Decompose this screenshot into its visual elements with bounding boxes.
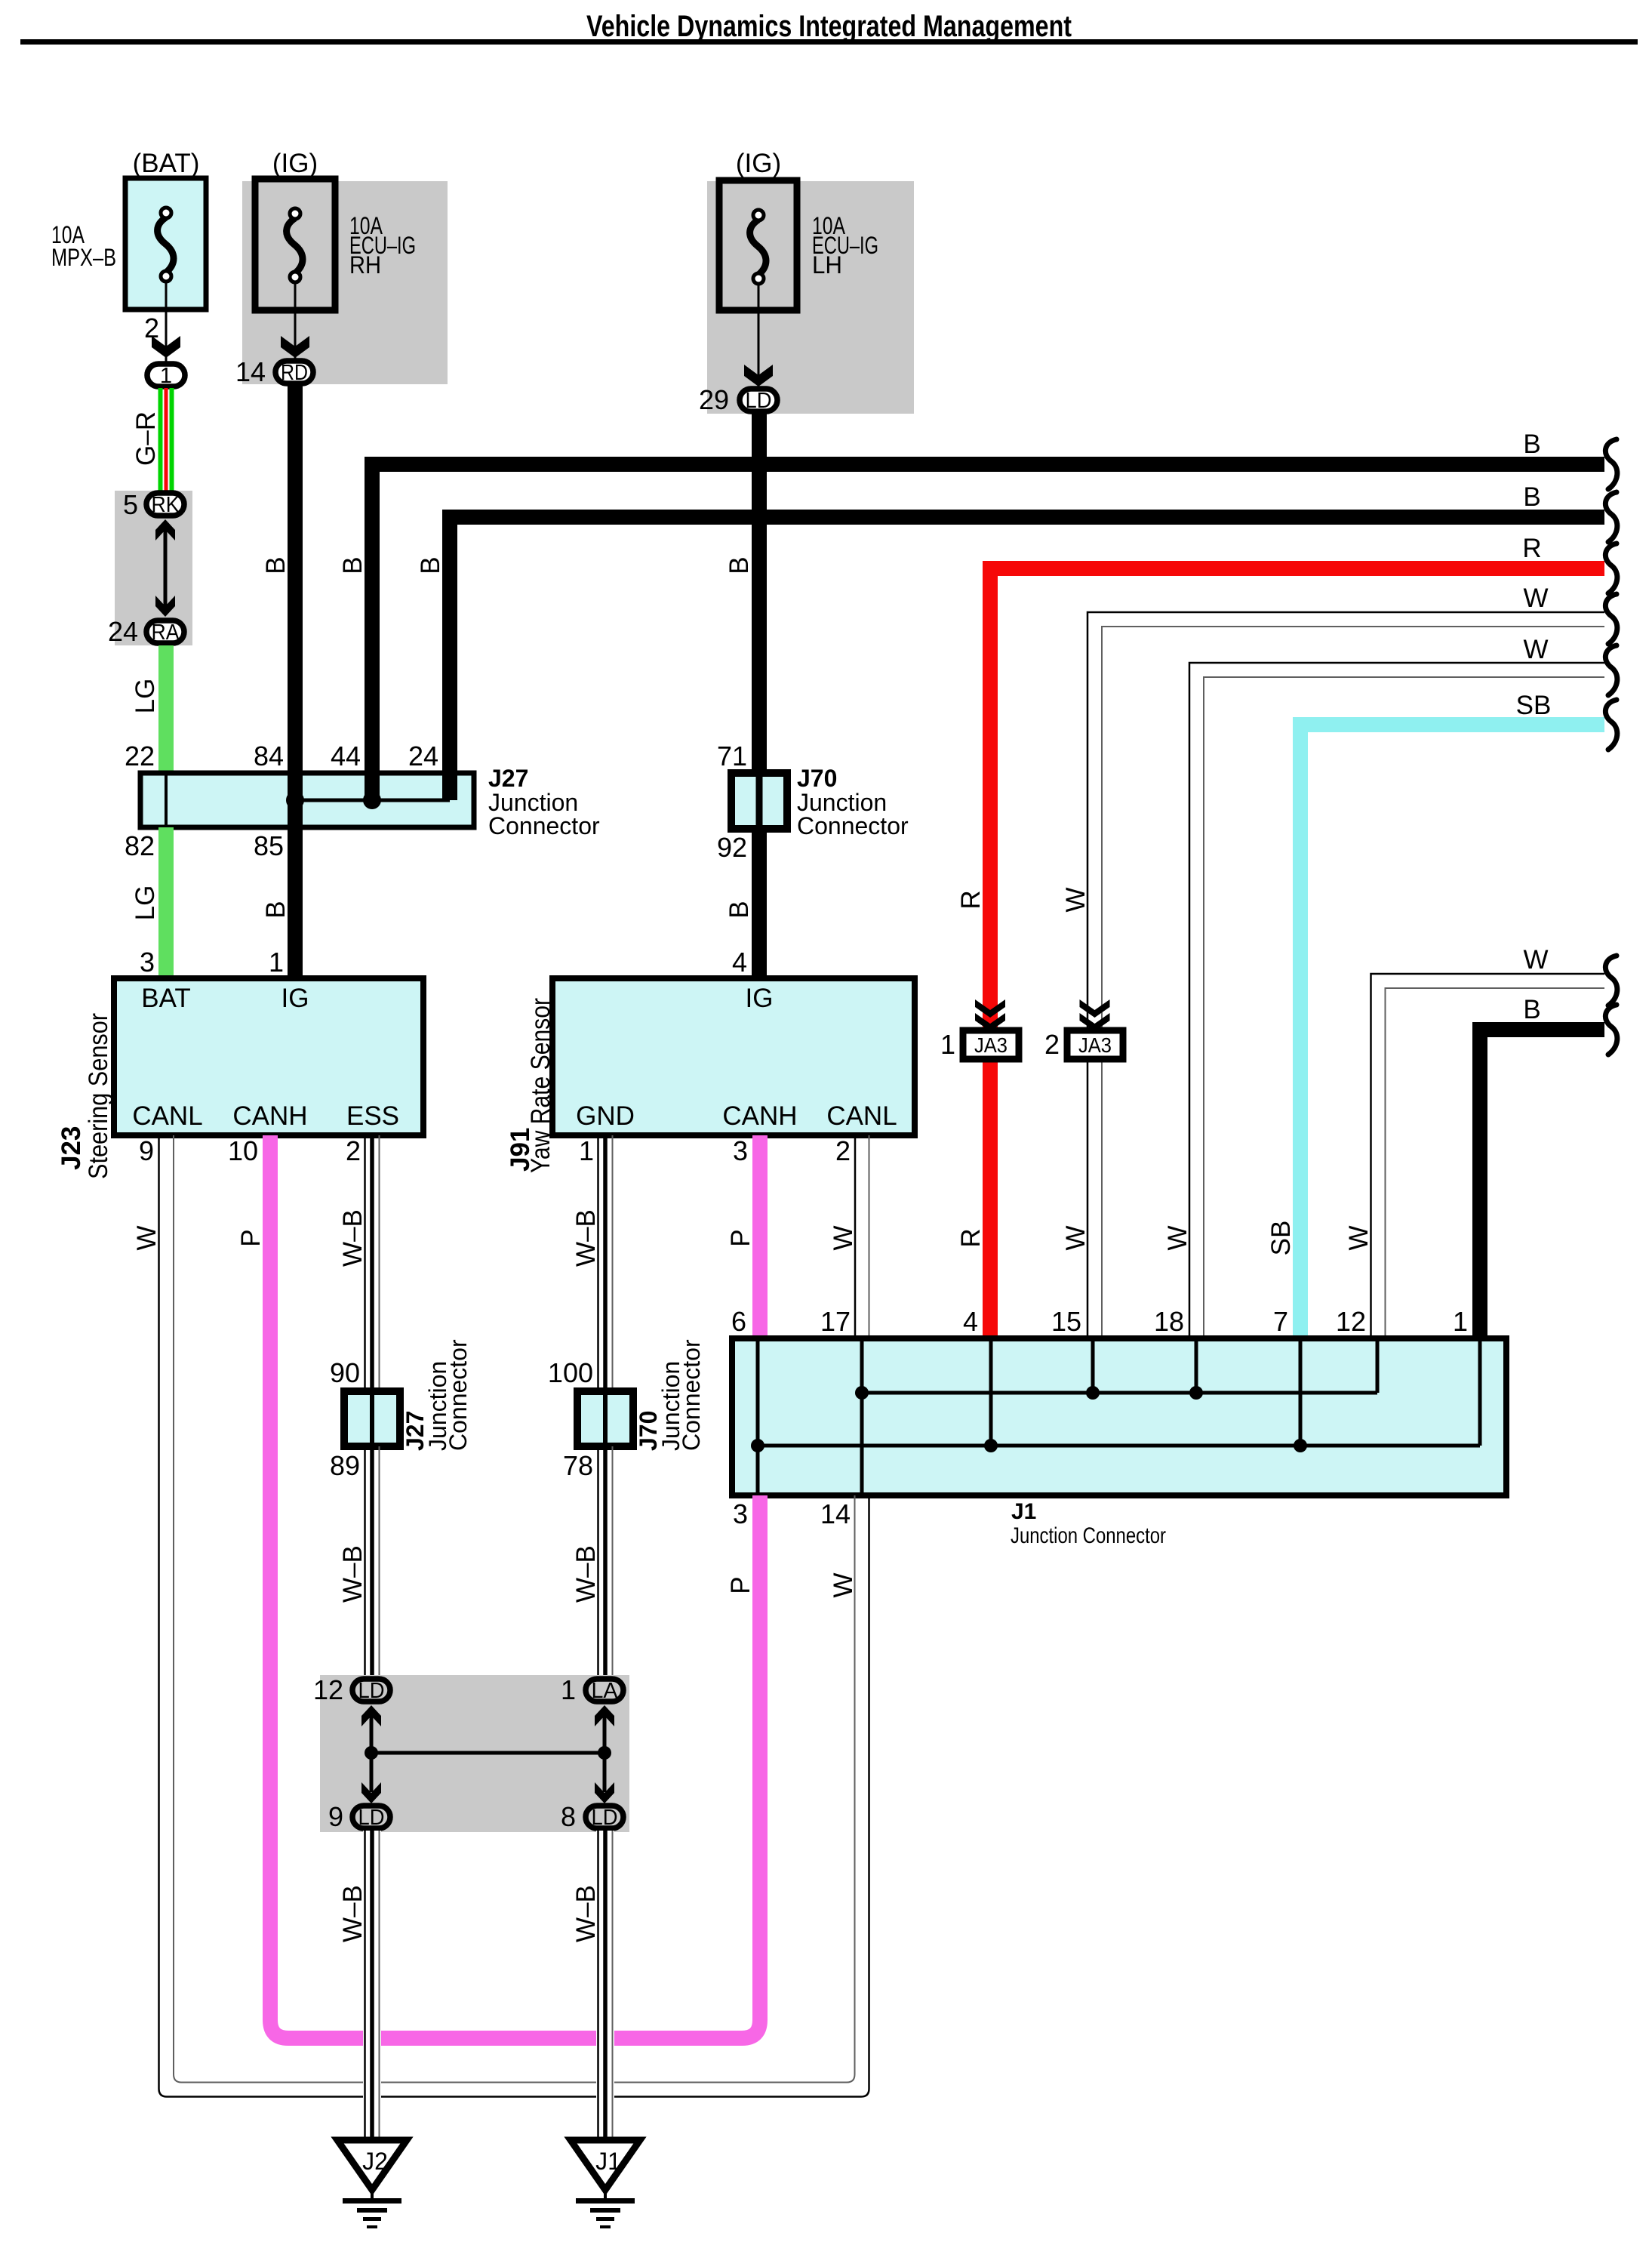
svg-text:R: R	[1522, 534, 1541, 563]
fuse MPX-B body	[125, 178, 206, 310]
connector JA3 pin 2 body	[1067, 1030, 1123, 1059]
svg-text:J70: J70	[797, 765, 837, 792]
svg-text:W–B: W–B	[571, 1885, 601, 1942]
connector mating link RK-RA	[164, 528, 168, 608]
svg-text:LG: LG	[131, 885, 160, 921]
svg-text:CANL: CANL	[826, 1101, 897, 1131]
svg-text:89: 89	[330, 1450, 360, 1481]
svg-text:Vehicle Dynamics Integrated Ma: Vehicle Dynamics Integrated Management	[586, 10, 1072, 43]
svg-text:J1: J1	[1011, 1499, 1036, 1524]
svg-text:W: W	[1163, 1225, 1192, 1250]
svg-text:9: 9	[328, 1801, 343, 1832]
wire B from terminal LD pin 29 down to J70 pin 71	[752, 412, 767, 775]
svg-text:LD: LD	[746, 389, 772, 413]
svg-text:R: R	[956, 1228, 986, 1247]
mating arrow up at LD 12	[361, 1705, 381, 1726]
svg-text:4: 4	[732, 947, 747, 978]
svg-text:Connector: Connector	[488, 812, 600, 839]
svg-text:LH: LH	[812, 251, 842, 279]
J1 internal wire pin 7	[1299, 1338, 1303, 1446]
svg-text:2: 2	[346, 1135, 361, 1166]
arrow into connector 1	[152, 336, 180, 358]
fuse ECU-IG LH element	[750, 220, 766, 275]
svg-text:1: 1	[561, 1674, 576, 1705]
svg-text:2: 2	[1044, 1029, 1060, 1060]
svg-text:RK: RK	[152, 493, 180, 517]
svg-text:W: W	[1061, 887, 1091, 912]
svg-text:JA3: JA3	[974, 1033, 1008, 1057]
svg-text:BAT: BAT	[141, 984, 190, 1013]
wire P loop from steering sensor CANH to J1 pin 3	[270, 1135, 760, 2038]
J27 lower internal divider	[370, 1391, 374, 1446]
fuse MPX-B element	[158, 217, 174, 273]
svg-text:RD: RD	[281, 361, 308, 385]
svg-text:RA: RA	[152, 621, 180, 645]
svg-text:W: W	[1523, 584, 1548, 613]
svg-text:ESS: ESS	[346, 1101, 399, 1131]
svg-text:22: 22	[125, 741, 155, 771]
svg-text:R: R	[956, 890, 986, 909]
svg-text:B: B	[724, 556, 754, 574]
junction connector J70 (lower) body	[577, 1391, 633, 1446]
svg-text:Connector: Connector	[678, 1339, 705, 1451]
wire B riser from J27 pin 44 up to bus B1	[372, 464, 1604, 775]
wire B from J70 pin 92 to yaw rate sensor IG	[752, 829, 767, 980]
wire LG from J27 pin 82 to steering sensor BAT	[158, 827, 174, 980]
svg-text:2: 2	[835, 1135, 851, 1166]
svg-text:W: W	[132, 1225, 162, 1250]
mating arrow down at LD 8	[595, 1782, 614, 1803]
wire P from yaw rate sensor CANH to J1 pin 6	[752, 1135, 768, 1340]
wire B from terminal RD pin 14 down to J27 pin 84	[288, 385, 303, 775]
svg-text:8: 8	[561, 1801, 576, 1832]
J1 internal upper bus	[862, 1391, 1377, 1395]
svg-text:10: 10	[228, 1135, 258, 1166]
svg-text:B: B	[724, 901, 754, 918]
svg-text:1: 1	[160, 364, 172, 388]
svg-text:B: B	[1523, 482, 1540, 512]
connector mating arrow down at RA	[155, 596, 175, 617]
svg-text:84: 84	[254, 741, 284, 771]
svg-text:CANH: CANH	[722, 1101, 797, 1131]
wire W-B from terminal LD 8 to ground J1	[596, 1831, 614, 2142]
continuation brace R	[1605, 544, 1617, 593]
svg-text:17: 17	[820, 1306, 851, 1337]
wire W-B from J27 pin 89 to terminal LD 12	[365, 1446, 380, 1677]
svg-text:82: 82	[125, 830, 155, 861]
svg-text:78: 78	[563, 1450, 593, 1481]
svg-text:W: W	[1523, 635, 1548, 664]
svg-text:IG: IG	[746, 984, 774, 1013]
svg-text:B: B	[416, 556, 445, 574]
svg-text:1: 1	[579, 1135, 594, 1166]
svg-text:J1: J1	[595, 2148, 621, 2175]
svg-text:1: 1	[269, 947, 284, 978]
J27 internal wire pin 44	[365, 773, 380, 800]
svg-text:B: B	[1523, 430, 1540, 459]
svg-text:LG: LG	[131, 679, 160, 714]
continuation brace W	[1605, 594, 1617, 644]
junction dot pin 6	[751, 1439, 764, 1452]
terminal oval RA	[146, 621, 184, 643]
svg-text:9: 9	[139, 1135, 154, 1166]
svg-text:RH: RH	[349, 251, 381, 279]
svg-text:B: B	[1523, 995, 1540, 1024]
wire SB from bus to J1 pin 7	[1300, 725, 1604, 1340]
svg-text:(IG): (IG)	[736, 149, 781, 178]
junction dot left	[365, 1746, 378, 1760]
wire fuse RH to terminal 14 RD	[294, 283, 297, 359]
svg-text:14: 14	[235, 356, 266, 387]
terminal oval LD	[740, 389, 777, 411]
connector oval 1	[147, 364, 185, 386]
svg-text:100: 100	[548, 1357, 593, 1388]
svg-text:Yaw Rate Sensor: Yaw Rate Sensor	[526, 998, 555, 1173]
svg-text:IG: IG	[281, 984, 309, 1013]
svg-text:P: P	[726, 1576, 755, 1594]
junction dot at pin 84	[286, 791, 304, 809]
J1 internal lower bus	[758, 1444, 1480, 1448]
continuation brace B	[1605, 492, 1617, 542]
svg-text:LA: LA	[592, 1679, 619, 1703]
shield box for connectors LD/LA	[320, 1675, 629, 1832]
svg-text:SB: SB	[1516, 691, 1552, 720]
J1 internal wire pin 12	[1376, 1338, 1380, 1393]
svg-text:B: B	[261, 901, 291, 918]
continuation brace B	[1605, 1005, 1617, 1055]
J70 lower internal divider	[603, 1391, 608, 1446]
ground J1	[571, 2140, 640, 2228]
wire W (double line) from bus to JA3 pin 2 and J1 pin 15	[1087, 612, 1604, 1340]
wire W loop (double line) from steering sensor CANL to J1 pin 14	[159, 1135, 869, 2097]
wire W-B from yaw rate sensor GND to J70 pin 100	[598, 1135, 613, 1393]
J1 internal wire pin 6-3	[756, 1338, 760, 1495]
wire W (double line) from bus to J1 pin 18	[1189, 663, 1604, 1340]
terminal oval LD 9	[352, 1806, 390, 1828]
svg-text:W: W	[829, 1572, 858, 1597]
svg-text:12: 12	[313, 1674, 343, 1705]
svg-text:14: 14	[820, 1498, 851, 1529]
svg-text:CANH: CANH	[232, 1101, 307, 1131]
junction dot pin 17	[855, 1386, 869, 1400]
arrow into terminal RD	[281, 336, 309, 358]
svg-text:3: 3	[733, 1498, 748, 1529]
svg-text:W: W	[1523, 945, 1548, 975]
internal bus between connectors	[371, 1751, 605, 1755]
svg-text:85: 85	[254, 830, 284, 861]
svg-text:J2: J2	[362, 2148, 388, 2175]
J1 internal wire pin 18	[1195, 1338, 1198, 1393]
svg-text:W: W	[1061, 1225, 1091, 1250]
fuse ECU-IG RH element	[287, 218, 303, 273]
wire W (double line) from bus to J1 pin 12	[1371, 974, 1605, 1340]
junction connector J1 body	[732, 1338, 1506, 1495]
svg-text:B: B	[261, 556, 291, 574]
connector JA3 pin 2 chevrons	[1080, 999, 1110, 1018]
continuation brace B	[1605, 439, 1617, 489]
mating arrow up at LA 1	[595, 1705, 614, 1726]
wire W-B from J70 pin 78 to terminal LA 1	[598, 1446, 613, 1677]
wire B from bus to J1 pin 1	[1480, 1030, 1604, 1340]
svg-text:MPX–B: MPX–B	[51, 244, 116, 271]
svg-text:5: 5	[123, 489, 138, 520]
svg-text:P: P	[236, 1229, 266, 1246]
svg-text:SB: SB	[1266, 1221, 1296, 1256]
svg-text:J23: J23	[57, 1126, 86, 1170]
svg-text:44: 44	[331, 741, 361, 771]
wire LG from RA to J27 pin 22	[158, 645, 174, 775]
svg-text:J27: J27	[488, 765, 528, 792]
connector mating arrow up at RK	[155, 519, 175, 540]
svg-text:1: 1	[1453, 1306, 1468, 1337]
steering sensor J23 body	[114, 978, 423, 1135]
wire fuse LH to terminal 29 LD	[758, 285, 760, 386]
svg-text:(BAT): (BAT)	[133, 149, 200, 178]
svg-text:W–B: W–B	[338, 1545, 368, 1603]
svg-text:W–B: W–B	[571, 1209, 601, 1267]
J1 internal wire pin 1	[1478, 1338, 1482, 1446]
svg-text:90: 90	[330, 1357, 360, 1388]
junction dot right	[598, 1746, 611, 1760]
wire fuse MPX-B pin 2 to connector 1	[165, 282, 168, 362]
wire B from J27 pin 85 to steering sensor IG	[288, 827, 303, 980]
continuation brace W	[1605, 956, 1617, 1006]
connector JA3 pin 1 chevrons	[975, 999, 1005, 1018]
connector JA3 pin 1 body	[963, 1030, 1019, 1059]
svg-text:(IG): (IG)	[272, 149, 318, 178]
svg-text:Junction Connector: Junction Connector	[1011, 1523, 1166, 1548]
title rule	[20, 39, 1638, 45]
shield box for connectors RK/RA	[115, 491, 192, 645]
junction dot pin 4	[984, 1439, 998, 1452]
svg-text:4: 4	[963, 1306, 978, 1337]
J1 internal wire pin 15	[1091, 1338, 1095, 1393]
svg-text:1: 1	[940, 1029, 955, 1060]
svg-text:LD: LD	[358, 1679, 385, 1703]
svg-text:LD: LD	[592, 1806, 618, 1830]
svg-text:29: 29	[699, 384, 729, 415]
terminal oval LD 12	[352, 1679, 390, 1702]
svg-text:24: 24	[408, 741, 438, 771]
J27 internal wire pin 24	[442, 773, 457, 800]
fuse ECU-IG LH body	[719, 180, 797, 310]
svg-text:Connector: Connector	[797, 812, 909, 839]
svg-text:7: 7	[1273, 1306, 1288, 1337]
svg-text:G–R: G–R	[131, 411, 161, 466]
svg-text:15: 15	[1051, 1306, 1081, 1337]
wire G-R from connector 1 to RK (green-red-green stripes)	[158, 388, 163, 492]
J1 internal wire pin 4	[989, 1338, 993, 1446]
fuse ECU-IG RH body	[255, 179, 335, 310]
svg-text:24: 24	[108, 616, 138, 647]
wire W-B from steering sensor ESS to J27 pin 90	[365, 1135, 380, 1393]
terminal oval LD 8	[586, 1806, 623, 1828]
svg-text:P: P	[726, 1229, 755, 1246]
svg-text:3: 3	[733, 1135, 748, 1166]
junction connector J27 (lower) body	[344, 1391, 400, 1446]
svg-text:18: 18	[1154, 1306, 1184, 1337]
wire R from bus to JA3 pin 1 and J1 pin 4	[990, 568, 1604, 1340]
ground J2	[337, 2140, 407, 2228]
svg-text:W–B: W–B	[338, 1885, 368, 1942]
svg-text:W–B: W–B	[338, 1209, 368, 1267]
svg-text:3: 3	[140, 947, 155, 978]
mating arrow down at LD 9	[361, 1782, 381, 1803]
wire W-B from terminal LD 9 to ground J2	[363, 1831, 381, 2142]
J1 internal wire pin 17-14	[860, 1338, 864, 1495]
svg-text:12: 12	[1336, 1306, 1366, 1337]
terminal oval RK	[146, 493, 184, 516]
svg-text:LD: LD	[358, 1806, 385, 1830]
internal link LD12 to LD9	[370, 1716, 374, 1792]
junction connector J27 body	[140, 773, 474, 827]
junction dot at pin 44	[363, 791, 381, 809]
svg-text:71: 71	[717, 741, 747, 771]
svg-text:B: B	[338, 556, 368, 574]
shield box for fuse ECU-IG LH	[707, 181, 914, 414]
svg-text:W: W	[829, 1225, 858, 1250]
svg-text:Connector: Connector	[445, 1339, 472, 1451]
svg-text:CANL: CANL	[132, 1101, 202, 1131]
svg-text:W–B: W–B	[571, 1545, 601, 1603]
internal link LA1 to LD8	[603, 1716, 607, 1792]
svg-text:W: W	[1344, 1225, 1374, 1250]
junction dot pin 7	[1294, 1439, 1307, 1452]
svg-text:92: 92	[717, 832, 747, 863]
junction connector J70 body	[731, 773, 787, 829]
continuation brace W	[1605, 645, 1617, 695]
wire W (double line) from yaw rate sensor CANL to J1 pin 17	[854, 1135, 857, 1340]
J70 internal divider	[756, 773, 763, 829]
continuation brace SB	[1605, 700, 1617, 750]
svg-text:GND: GND	[576, 1101, 635, 1131]
shield box for fuse ECU-IG RH	[242, 181, 448, 384]
arrow into terminal LD	[744, 365, 773, 386]
J27 internal bus pin 84-44-24	[295, 799, 450, 802]
terminal oval RD	[275, 361, 313, 383]
svg-text:JA3: JA3	[1078, 1033, 1112, 1057]
svg-text:2: 2	[144, 313, 159, 343]
svg-text:Steering Sensor: Steering Sensor	[84, 1013, 113, 1179]
junction dot pin 18	[1189, 1386, 1203, 1400]
junction dot pin 15	[1086, 1386, 1100, 1400]
J27 internal divider	[165, 773, 168, 827]
yaw rate sensor J91 body	[552, 978, 915, 1135]
svg-text:6: 6	[731, 1306, 746, 1337]
wire B riser from J27 pin 24 up to bus B2	[450, 517, 1604, 775]
terminal oval LA 1	[586, 1679, 623, 1702]
J27 internal wire pin 84/85	[288, 773, 303, 827]
